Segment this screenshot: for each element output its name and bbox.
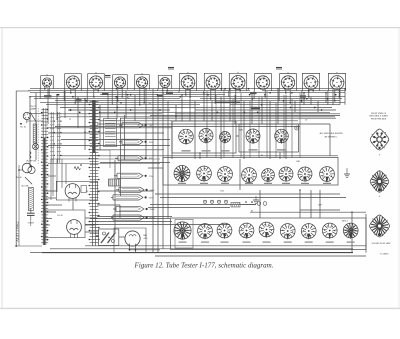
svg-text:FRONT VIEW OF: FRONT VIEW OF: [371, 113, 387, 115]
wire bottom bus B1: [85, 245, 366, 247]
wire vertical V28: [251, 93, 253, 124]
wire socket X7 pin drop a: [185, 88, 187, 94]
svg-text:AS VIEWED L: AS VIEWED L: [325, 135, 339, 138]
note: socket plug view: [372, 243, 391, 245]
transformer tap contact T3 (50V): [118, 156, 153, 161]
transformer tap contact T2 (25V): [122, 139, 153, 144]
contact pair K1: [30, 152, 32, 159]
wire socket X4 pin drop b: [121, 87, 123, 97]
wire tap T6 lead: [111, 195, 113, 200]
box around ballast: [114, 228, 146, 253]
junction on V37: [325, 92, 327, 94]
label V2 circuit: [57, 215, 62, 217]
rotary switch wafer S4-C: [218, 167, 233, 183]
junction on V43: [299, 189, 301, 191]
svg-text:R14: R14: [220, 191, 223, 193]
label tag t5: [76, 99, 82, 101]
svg-text:BAL: BAL: [144, 234, 148, 237]
transformer tap contact T6 (117V): [113, 195, 154, 200]
rotary switch wafer S3-C: [219, 131, 230, 144]
wire vertical V13: [145, 89, 147, 159]
wire socket X6 pin drop a: [162, 87, 164, 91]
label under wafer S4-G: [301, 183, 309, 184]
junction on V40: [344, 88, 346, 90]
switch box row1 left: [172, 121, 236, 153]
wire vertical V38: [332, 89, 334, 105]
label dark SHORT tag: [251, 107, 260, 109]
rotary switch wafer S5-D: [239, 223, 254, 240]
wire vertical V4: [56, 95, 58, 120]
rheostat R2: [28, 187, 33, 212]
wire bus H25: [55, 126, 300, 128]
note: front view of switches: [369, 113, 388, 121]
wire vertical V2: [35, 93, 37, 160]
wire bus H22: [175, 113, 340, 115]
wire socket X9 pin drop b: [239, 89, 241, 91]
rotary switch bank SB contacts: [50, 112, 55, 163]
label on-off switch: [26, 161, 37, 163]
wire bottom-left L6: [46, 231, 48, 233]
wire tap T2 lead: [119, 139, 122, 144]
wire pilot to bank SA b: [27, 120, 43, 123]
svg-text:Figure 12. Tube Tester I-177,: Figure 12. Tube Tester I-177, schematic …: [134, 262, 274, 270]
wire long drop D2: [215, 95, 217, 158]
wire socket X2 pin drop b: [74, 88, 76, 103]
wire bottom-left L13: [119, 205, 121, 218]
label under wafer S4-D: [245, 183, 253, 184]
junction on V16: [162, 92, 164, 94]
wire net M17: [250, 211, 366, 213]
junction socket X4: [117, 96, 123, 102]
wire socket X3 pin drop a: [93, 88, 95, 97]
wire net M3: [61, 139, 170, 141]
wire vertical V42: [259, 190, 261, 218]
junction socket X6: [162, 90, 168, 92]
svg-text:SOCKET-PLUG VIEW: SOCKET-PLUG VIEW: [372, 243, 391, 245]
svg-text:25V: 25V: [149, 142, 153, 144]
wire vertical V47: [365, 214, 367, 253]
wire vertical V1: [29, 97, 31, 168]
wire bus H6: [30, 96, 345, 98]
ground symbol G1: [344, 168, 350, 178]
resistor R3 zigzag: [74, 167, 81, 170]
junction on V49: [199, 152, 201, 154]
junction socket X2: [70, 92, 76, 104]
wire bus H9: [55, 100, 340, 102]
wire vertical V51: [329, 124, 331, 156]
wire bl vertical d: [65, 164, 67, 185]
wire long drop D5: [240, 93, 242, 158]
wire socket X6 pin drop b: [166, 87, 168, 91]
wire vertical V32: [285, 95, 287, 159]
wire bottom-left L11: [119, 236, 125, 238]
wire vertical V33: [294, 101, 296, 112]
label pilot lamp note: [30, 106, 37, 111]
tube socket X8: [204, 73, 221, 91]
label designation S3: [175, 116, 177, 118]
svg-text:R9: R9: [149, 103, 151, 105]
wire vertical V16: [162, 93, 164, 249]
wire socket X11 pin drop a: [285, 88, 287, 93]
wire tap T4 lead: [114, 173, 117, 178]
wire vertical V30: [269, 101, 271, 159]
rotary switch wafer S4-H: [320, 166, 335, 183]
wire vertical V10: [116, 97, 118, 119]
regulator RT1: [99, 229, 119, 246]
wire socket X12 pin drop a: [308, 88, 310, 96]
page sheet edge left: [1, 28, 3, 309]
rotary switch wafer S5-F: [280, 224, 295, 240]
wire net M8: [148, 167, 163, 169]
rotary switch wafer S5-G: [301, 223, 316, 240]
wire bus H2: [28, 90, 250, 92]
wire socket X1 pin drop c: [39, 89, 41, 99]
order number AGO 23982 (rotated): [15, 221, 20, 242]
label tag t3: [157, 95, 163, 97]
wire socket X9 pin drop c: [228, 91, 230, 97]
junction on V4: [56, 94, 58, 96]
socket detail view D3: [370, 215, 390, 237]
wire net M1: [48, 127, 172, 129]
label D2: [379, 195, 381, 198]
label designation S4E: [296, 161, 300, 163]
page sheet edge bottom: [0, 307, 400, 309]
resistor network RN1: [203, 200, 266, 207]
tube socket X11: [280, 72, 297, 91]
wire bottom-left L17: [130, 249, 161, 251]
label designation S5F: [318, 205, 322, 207]
page sheet edge top: [0, 27, 400, 29]
wire net M10: [90, 221, 172, 223]
wire long drop D8: [266, 91, 268, 158]
wire vertical V21: [194, 101, 196, 159]
label under wafer S5-C: [221, 242, 229, 243]
wire bus H23: [60, 116, 335, 118]
svg-text:J3: J3: [305, 120, 307, 122]
label designation J2: [69, 119, 71, 121]
wire socket X8 pin drop a: [210, 89, 212, 99]
wire socket X10 pin drop b: [264, 88, 266, 97]
wire vertical V45: [310, 190, 312, 218]
wire net M11: [85, 224, 230, 226]
transformer tap contact T7 (150V): [116, 206, 155, 211]
wire bus H5: [100, 94, 225, 96]
junction socket X8: [210, 98, 216, 104]
junction socket X7: [185, 94, 191, 98]
wire bus H24: [97, 123, 330, 125]
lamp E2 (circle-X): [33, 144, 39, 150]
junction on V28: [251, 92, 253, 94]
wire socket X2 pin drop a: [70, 88, 72, 93]
junction socket X3: [93, 90, 99, 98]
label tag t6: [250, 92, 257, 94]
wire long drop D9: [275, 103, 277, 158]
wire net M18: [90, 218, 170, 220]
label under wafer S5-G: [305, 242, 313, 243]
svg-text:75V: 75V: [149, 176, 153, 178]
label designation S5: [251, 211, 253, 213]
svg-text:S5: S5: [251, 211, 253, 213]
label under wafer S5-H: [326, 242, 334, 243]
label under wafer S4-B: [200, 183, 208, 184]
junction AC bottom: [15, 245, 42, 247]
label under wafer S5-E: [263, 242, 271, 243]
label C1 value OR-4W: [28, 223, 34, 225]
label under wafer S4-A: [178, 183, 186, 184]
wire bottom-left L4: [46, 218, 52, 220]
junction on V7: [84, 98, 86, 100]
wire bus H11: [216, 101, 240, 103]
wire socket X4 pin drop c: [111, 90, 113, 105]
wire bus H14: [60, 107, 332, 109]
wire vertical V29: [261, 97, 263, 124]
wire vertical V20: [189, 89, 191, 121]
wire net M7: [100, 162, 170, 164]
switch lever S1 arm: [30, 112, 36, 122]
wire socket X12 pin drop c: [301, 91, 303, 103]
rectifier tube V2: [67, 220, 82, 238]
junction node at E1: [20, 123, 22, 125]
wire vertical V25: [229, 89, 231, 121]
junction socket X11: [285, 92, 291, 104]
label under wafer S5-F: [284, 242, 292, 243]
label under wafer S3-E: [277, 149, 286, 150]
tube socket X6: [158, 75, 171, 89]
wire socket X6 pin drop c: [157, 89, 159, 91]
wire chevron feed 1: [120, 118, 122, 196]
ballast tube V3: [125, 231, 140, 251]
small relay box right of V1: [81, 186, 87, 193]
wire tap T1 lead: [119, 123, 122, 128]
rotary switch bank SC contacts: [57, 112, 62, 163]
label APD-4: [342, 220, 347, 223]
wire net M4: [48, 145, 170, 147]
label under wafer S3-C: [221, 150, 230, 151]
tube socket X5: [135, 73, 150, 89]
svg-text:150V: 150V: [149, 209, 155, 211]
switch box row2: [163, 158, 338, 186]
wire vertical V36: [317, 101, 319, 112]
svg-text:FROM THIS SIDE: FROM THIS SIDE: [371, 118, 387, 120]
svg-text:S6: S6: [84, 132, 86, 134]
wire net M2: [48, 132, 164, 134]
svg-text:NO. 81: NO. 81: [20, 127, 26, 129]
transformer tap contact T8 (POW): [113, 215, 156, 220]
label D1: [379, 154, 381, 157]
tube socket X2: [65, 74, 82, 91]
wire vertical V41: [239, 159, 241, 190]
wire socket X8 pin drop c: [203, 91, 205, 95]
wire from C1 down: [30, 220, 32, 226]
wire tap T8 lead: [111, 215, 113, 220]
rotary switch wafer S5-E: [259, 222, 274, 239]
label under wafer S4-E: [264, 183, 272, 184]
tube socket X12: [302, 73, 319, 91]
svg-text:NO 40: NO 40: [16, 177, 21, 179]
wire tap T3 lead: [115, 156, 118, 161]
socket detail view D2: [370, 171, 389, 193]
wire bottom-left L14: [72, 202, 74, 210]
wire vertical V24: [220, 97, 222, 159]
rotary switch wafer S4-F: [279, 167, 293, 183]
wire vertical V7: [84, 99, 86, 150]
wire net M6: [60, 155, 338, 157]
wire socket X10 pin drop a: [260, 87, 262, 90]
wire vertical V22: [203, 93, 205, 121]
svg-text:LAMP: LAMP: [30, 108, 36, 111]
wire bus H20: [100, 120, 298, 122]
switch box row3: [171, 218, 367, 250]
wire bus H21: [48, 113, 162, 115]
label tag t2: [102, 92, 109, 94]
label AC line: [22, 185, 30, 188]
wire long drop D11: [291, 99, 293, 158]
wire bottom bus B2: [50, 248, 353, 250]
box corner lower-left of SE: [96, 150, 110, 168]
transformer tap contact T4 (75V): [117, 173, 153, 178]
wire socket X13 pin drop b: [338, 88, 340, 96]
wire bus H17: [100, 111, 330, 113]
junction socket X10: [260, 88, 266, 98]
junction on V13: [145, 88, 147, 90]
rotary switch wafer S3-E: [275, 129, 289, 144]
rotary switch wafer S3-D: [246, 129, 260, 145]
junction socket X13: [334, 96, 340, 102]
connector block CB1: [109, 179, 121, 186]
wire vertical V11: [125, 91, 127, 118]
wire socket X11 pin drop c: [278, 91, 280, 101]
wire net M15: [155, 193, 340, 195]
junction left of RT1: [96, 235, 98, 237]
wire bus H16: [195, 109, 336, 111]
rotary switch bank SE contacts: [104, 119, 117, 147]
note: all switches viewed: [320, 132, 343, 138]
tube socket X4: [113, 75, 128, 90]
rotary switch wafer S4-D: [241, 167, 256, 184]
wire long drop D3: [223, 89, 225, 158]
wire bus H13: [230, 104, 340, 106]
wire AC input L-long: [15, 91, 17, 246]
rotary switch wafer S5-A: [174, 222, 191, 241]
wire junction beads: [57, 88, 337, 113]
wire bl horizontal b: [48, 175, 56, 177]
wire vertical V17: [167, 101, 169, 218]
svg-text:ALL SWITCHES SHOWN: ALL SWITCHES SHOWN: [320, 132, 343, 135]
wire socket X3 pin drop c: [86, 91, 88, 103]
wire bus H10: [40, 102, 345, 104]
rotary switch wafer S5-B: [197, 223, 212, 240]
caption figure title: [134, 262, 274, 270]
junction on V22: [203, 92, 205, 94]
label V1: [86, 191, 89, 193]
wire bus H3: [262, 90, 345, 92]
wire vertical V34: [303, 93, 305, 105]
wire bus H8: [200, 98, 342, 100]
wire bottom-left L2: [46, 204, 62, 206]
label under wafer S3-B: [202, 150, 211, 151]
wire net M14: [160, 197, 346, 199]
plate id TL54816: [380, 253, 390, 256]
svg-text:SWITCHES & TUBES: SWITCHES & TUBES: [369, 116, 388, 118]
wire bus H19: [120, 117, 336, 119]
wire AC input top bend: [16, 90, 30, 92]
socket detail view D1: [370, 129, 389, 150]
label designation R14: [220, 191, 223, 193]
wire socket X1 pin drop b: [48, 86, 50, 97]
label under wafer S5-B: [201, 242, 209, 243]
junction on V31: [277, 88, 279, 90]
wire bus H4: [30, 92, 345, 94]
wire vertical V26: [234, 95, 236, 124]
label designation J3: [305, 120, 307, 122]
svg-text:AGO 23982: AGO 23982: [15, 221, 20, 242]
svg-text:117V: 117V: [149, 197, 154, 199]
wire bottom-left L8: [85, 224, 95, 226]
rectifier tube V1: [65, 184, 80, 202]
wire pilot to bank SA a: [30, 113, 43, 115]
svg-text:AC LINE: AC LINE: [22, 185, 30, 188]
label tag t4: [166, 92, 173, 94]
rotary switch wafer S3-A: [178, 129, 193, 145]
wire long drop D10: [283, 95, 285, 158]
wire bottom-left L10: [85, 231, 99, 233]
wire tap T5 lead: [116, 187, 119, 192]
wire socket X11 pin drop b: [289, 88, 291, 103]
label under wafer S3-D: [249, 149, 258, 150]
wire row1 box link: [236, 135, 239, 137]
wire bottom-left L1: [46, 197, 56, 199]
label designation R9: [149, 103, 151, 105]
transformer tap contact T1 (6V): [122, 123, 153, 128]
tube socket X1: [41, 74, 54, 88]
wire bl vertical a: [52, 159, 54, 196]
wire bottom-left L12: [97, 204, 120, 206]
junction on V34: [303, 92, 305, 94]
label under wafer S4-C: [221, 183, 229, 184]
wire socket X5 pin drop b: [143, 87, 145, 103]
rotary switch wafer S5-C: [217, 223, 232, 239]
wire bottom-left L16: [46, 190, 56, 192]
wire socket X3 pin drop b: [97, 88, 99, 91]
wire socket X13 pin drop c: [327, 91, 329, 105]
rotary switch wafer S4-B: [196, 166, 211, 183]
wire vertical V8: [99, 105, 101, 150]
svg-text:4-29: 4-29: [144, 238, 148, 240]
label under wafer S4-F: [282, 183, 290, 184]
wire socket X7 pin drop c: [178, 91, 180, 93]
wire bus H7: [34, 98, 180, 100]
wire vertical V12: [134, 95, 136, 121]
wire bottom-left L9: [98, 190, 153, 192]
wire vertical V14: [152, 89, 154, 253]
wire vertical V50: [279, 152, 281, 159]
svg-text:POW: POW: [149, 218, 155, 220]
label under wafer S4-H: [323, 183, 331, 184]
wire bl vertical b: [56, 159, 58, 192]
rotary switch wafer S5-I: [343, 223, 358, 239]
wire bl vertical c: [61, 159, 63, 188]
junction on V46: [351, 211, 353, 213]
label NO 40: [16, 177, 21, 179]
tube socket X7: [180, 72, 197, 91]
wire chevron feed 3: [114, 160, 116, 232]
label designation S3B: [239, 130, 243, 132]
wire bottom bus B3: [42, 252, 353, 254]
junction on V19: [181, 94, 183, 96]
junction socket X9: [235, 90, 241, 104]
svg-text:ON-OFF SW: ON-OFF SW: [26, 161, 37, 163]
wire tap T7 lead: [113, 206, 116, 211]
